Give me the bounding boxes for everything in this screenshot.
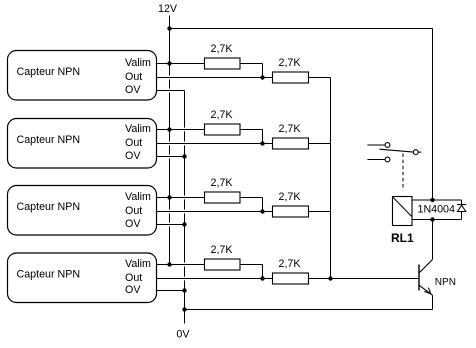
svg-text:2,7K: 2,7K <box>211 109 234 121</box>
svg-text:2,7K: 2,7K <box>279 57 302 69</box>
svg-text:Capteur NPN: Capteur NPN <box>17 201 81 213</box>
svg-text:Capteur NPN: Capteur NPN <box>17 268 81 280</box>
svg-text:Valim: Valim <box>125 57 151 69</box>
svg-text:OV: OV <box>125 150 141 162</box>
svg-text:2,7K: 2,7K <box>211 244 234 256</box>
svg-text:2,7K: 2,7K <box>211 43 234 55</box>
svg-text:2,7K: 2,7K <box>279 191 302 203</box>
svg-text:RL1: RL1 <box>391 231 414 245</box>
svg-text:Out: Out <box>125 205 142 217</box>
svg-text:Valim: Valim <box>125 191 151 203</box>
svg-text:Out: Out <box>125 137 142 149</box>
svg-text:NPN: NPN <box>435 277 456 288</box>
svg-text:2,7K: 2,7K <box>279 258 302 270</box>
svg-text:OV: OV <box>125 84 141 96</box>
svg-text:OV: OV <box>125 284 141 296</box>
svg-text:Capteur NPN: Capteur NPN <box>17 66 81 78</box>
svg-text:Valim: Valim <box>125 123 151 135</box>
svg-text:Out: Out <box>125 71 142 83</box>
svg-text:Out: Out <box>125 272 142 284</box>
svg-text:2,7K: 2,7K <box>279 123 302 135</box>
svg-text:12V: 12V <box>158 3 178 15</box>
svg-text:0V: 0V <box>176 329 190 341</box>
svg-text:OV: OV <box>125 218 141 230</box>
svg-text:2,7K: 2,7K <box>211 177 234 189</box>
svg-text:Capteur NPN: Capteur NPN <box>17 134 81 146</box>
svg-text:Valim: Valim <box>125 258 151 270</box>
svg-text:1N4004: 1N4004 <box>418 204 455 216</box>
